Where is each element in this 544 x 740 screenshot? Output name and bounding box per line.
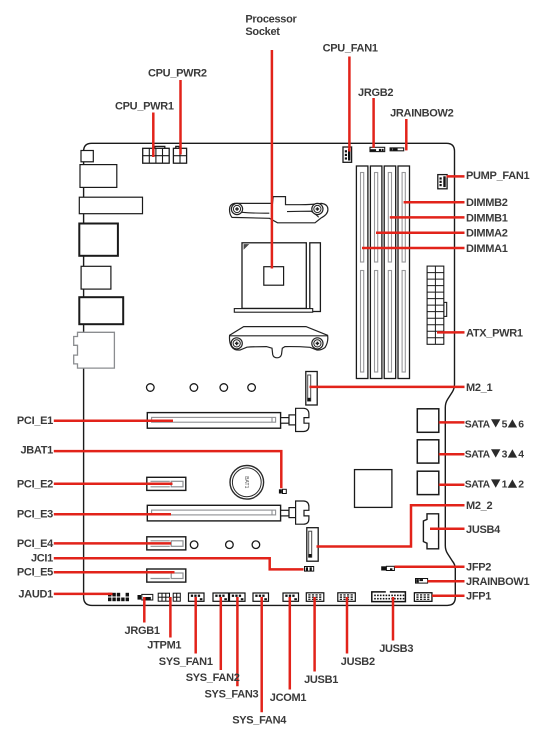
svg-text:ATX_PWR1: ATX_PWR1 [466,327,523,339]
svg-text:JRAINBOW1: JRAINBOW1 [466,576,529,588]
svg-text:DIMMB2: DIMMB2 [466,197,508,209]
svg-text:6: 6 [518,420,524,431]
svg-text:SYS_FAN1: SYS_FAN1 [159,656,213,668]
svg-text:JCOM1: JCOM1 [270,692,307,704]
svg-text:PCI_E1: PCI_E1 [17,415,53,427]
svg-text:Socket: Socket [245,26,280,38]
svg-text:JUSB4: JUSB4 [466,524,501,536]
svg-text:JUSB3: JUSB3 [379,643,413,655]
svg-text:CPU_PWR2: CPU_PWR2 [148,68,207,80]
svg-text:JUSB1: JUSB1 [304,674,338,686]
svg-text:SYS_FAN3: SYS_FAN3 [205,689,259,701]
svg-text:4: 4 [518,450,524,461]
svg-text:PCI_E3: PCI_E3 [17,509,53,521]
svg-text:JCI1: JCI1 [31,552,53,564]
svg-text:M2_2: M2_2 [466,500,492,512]
svg-text:SYS_FAN4: SYS_FAN4 [232,715,287,727]
svg-text:CPU_FAN1: CPU_FAN1 [323,42,378,54]
svg-text:2: 2 [518,480,524,491]
svg-text:5: 5 [502,420,508,431]
svg-text:SYS_FAN2: SYS_FAN2 [186,672,240,684]
svg-text:M2_1: M2_1 [466,382,492,394]
svg-text:CPU_PWR1: CPU_PWR1 [115,101,174,113]
svg-text:PCI_E5: PCI_E5 [17,567,53,579]
svg-text:PUMP_FAN1: PUMP_FAN1 [466,170,529,182]
svg-text:JRAINBOW2: JRAINBOW2 [390,108,453,120]
svg-text:JFP1: JFP1 [466,591,491,603]
svg-text:JBAT1: JBAT1 [20,445,53,457]
svg-text:PCI_E4: PCI_E4 [17,538,54,550]
svg-text:SATA: SATA [465,480,491,491]
svg-text:1: 1 [502,480,508,491]
svg-text:DIMMB1: DIMMB1 [466,212,508,224]
svg-text:JAUD1: JAUD1 [18,588,53,600]
svg-text:3: 3 [502,450,508,461]
svg-text:DIMMA1: DIMMA1 [466,243,508,255]
svg-text:Processor: Processor [245,14,297,26]
svg-text:JRGB1: JRGB1 [125,625,160,637]
svg-text:PCI_E2: PCI_E2 [17,478,53,490]
svg-text:JFP2: JFP2 [466,562,491,574]
svg-text:JUSB2: JUSB2 [341,656,375,668]
svg-text:JRGB2: JRGB2 [358,87,393,99]
svg-text:SATA: SATA [465,450,491,461]
svg-text:SATA: SATA [465,420,491,431]
svg-text:JTPM1: JTPM1 [147,640,181,652]
svg-text:DIMMA2: DIMMA2 [466,228,508,240]
svg-text:BAT1: BAT1 [243,476,249,488]
